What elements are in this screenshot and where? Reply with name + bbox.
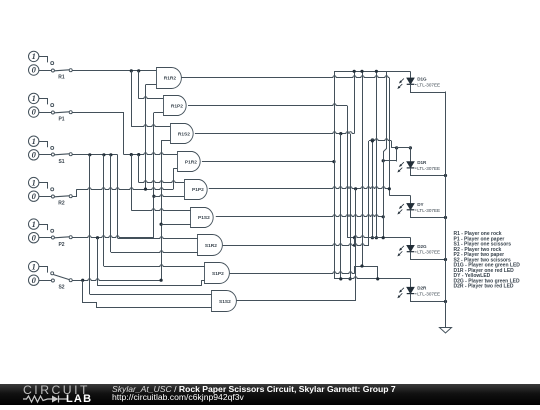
AND gate S1R2 (198, 235, 223, 256)
LED D2G LTL-307EE (396, 238, 445, 260)
junction P1R2 at long riser (332, 160, 335, 163)
svg-text:0: 0 (32, 107, 37, 117)
wire S1S2 riser to DY route (355, 189, 357, 301)
svg-text:1: 1 (32, 219, 36, 229)
junction P1S2 at D2G drop (382, 215, 385, 218)
wire S1 drop to S1R2 input A (117, 155, 119, 239)
svg-text:R1S2: R1S2 (178, 131, 190, 137)
svg-text:R1P2: R1P2 (171, 104, 183, 110)
junction D2R bus at S1P2 drop (376, 277, 379, 280)
AND gate P1S2 (191, 208, 214, 228)
wire riser 350 to D2R bus (350, 134, 352, 279)
wire D2R bus (334, 277, 411, 279)
wire D1R feed row (369, 139, 391, 141)
junction D2G bus at S1R2 stub (353, 236, 356, 239)
junction D1R bus top (395, 146, 398, 149)
junction on P1 row (P1P2 branch) (137, 153, 140, 156)
wire R1S2 drop to D2R bus (340, 134, 342, 279)
wire D1R feed upper row (391, 147, 410, 149)
wire S1 bus drop (S1R2 B side) (110, 155, 112, 252)
junction D2R bus at riser 350 (349, 277, 352, 280)
wire into S1P2 input A (104, 265, 205, 267)
svg-text:1: 1 (32, 51, 36, 61)
svg-text:1: 1 (32, 261, 36, 271)
svg-text:1: 1 (32, 93, 36, 103)
svg-text:LTL-307EE: LTL-307EE (417, 208, 440, 213)
AND gate R1R2 (157, 68, 182, 89)
junction DY route at R1R2 drop (388, 187, 391, 190)
junction S2 bus to P1S2 input B (160, 223, 163, 226)
junction riser 372.4 bottom (371, 236, 374, 239)
wire S1P2 drop to D2R bus (377, 266, 379, 279)
AND gate S1P2 (205, 263, 230, 284)
svg-text:S1: S1 (58, 159, 64, 165)
wire S1P2 jog row (355, 266, 378, 268)
junction on R1 row (R1S2 branch) (130, 69, 133, 72)
svg-text:0: 0 (32, 65, 37, 75)
wire P2 jog row to S1P2 (98, 285, 202, 287)
svg-text:LTL-307EE: LTL-307EE (417, 292, 440, 297)
svg-text:LTL-307EE: LTL-307EE (417, 250, 440, 255)
wire into S1P2 input B (201, 280, 205, 282)
wire riser 376.4 long (376, 71, 378, 237)
svg-text:S2: S2 (58, 285, 64, 291)
wire D1R feed step (391, 141, 393, 148)
junction S2 row (S2 bus takeoff) (160, 279, 163, 282)
AND gate P1R2 (178, 152, 201, 172)
junction S1P2 jog at long riser (360, 264, 363, 267)
switch S1 (29, 136, 73, 165)
wire R1R2 drop to DY bus (389, 78, 391, 196)
junction D1G bus at riser 362 (360, 70, 363, 73)
ground (440, 328, 452, 334)
junction R2 row to R2 bus (144, 188, 147, 191)
wire R2 stub to R1R2 input B (146, 84, 157, 86)
wire P1S2 output (216, 215, 383, 217)
wire S1 bus drop to S1S2 (89, 155, 91, 294)
switch R1 (29, 51, 73, 80)
svg-text:R1R2: R1R2 (164, 76, 177, 82)
junction D2G bus at lane line (382, 236, 385, 239)
junction DY route at S1S2 riser (354, 187, 357, 190)
LED D2R LTL-307EE (396, 279, 445, 302)
junction D1R bus at lane line (382, 159, 385, 162)
wire cathode return to ground (445, 92, 447, 328)
switch R2 (29, 177, 73, 206)
wire P2 drop past S2 row (97, 238, 99, 286)
wire S1S2 output (237, 300, 356, 302)
wire S1 row (72, 154, 118, 156)
wire S1 bus drop to S1P2 (103, 155, 105, 266)
wire R1 row to R1R2 input A (72, 70, 156, 72)
wire lane-jog line (384, 71, 387, 237)
junction P2 bus to P1P2 input B (152, 195, 155, 198)
svg-text:P1R2: P1R2 (185, 159, 197, 165)
switch P2 (29, 219, 73, 248)
junction S2 row (S1S2 branch) (81, 279, 84, 282)
wire R2 vertical bus (145, 85, 147, 189)
AND gate S1S2 (212, 291, 237, 312)
junction on S1 row (S1P2 branch) (102, 153, 105, 156)
wire into P1P2 input A (139, 181, 184, 183)
svg-text:1: 1 (32, 136, 36, 146)
wire into S1R2 input B (111, 251, 198, 253)
wire D2G bus (347, 236, 410, 238)
wire into P1S2 input B (161, 224, 191, 226)
wire S2 vertical bus (161, 141, 163, 281)
wire S1P2 output (230, 272, 355, 274)
svg-text:LTL-307EE: LTL-307EE (417, 166, 440, 171)
switch S2 (29, 261, 73, 290)
LED D1R LTL-307EE (396, 148, 445, 176)
wire into R1P2 input A (139, 97, 164, 99)
wire into P1S2 input A (131, 209, 191, 211)
svg-text:S1S2: S1S2 (219, 299, 231, 305)
wire DY bus (389, 195, 410, 197)
junction D1G bus at riser 354 (353, 70, 356, 73)
wire P1 to P1R2 input A (124, 153, 177, 155)
wire into S1S2 input A (90, 294, 212, 296)
wire R2 riser to P1R2 input B (173, 168, 175, 189)
svg-text:LTL-307EE: LTL-307EE (417, 82, 440, 87)
wire P2 vertical bus (153, 113, 155, 238)
wire P2 stub to R1P2 input B (154, 112, 163, 114)
svg-text:1: 1 (32, 177, 36, 187)
junction on S1 row (S1S2 branch) (88, 153, 91, 156)
junction riser 376.4 bottom (375, 236, 378, 239)
svg-text:D2R - Player two red LED: D2R - Player two red LED (454, 284, 514, 290)
junction on R1 row (R1P2 branch) (137, 69, 140, 72)
svg-text:DY: DY (417, 202, 423, 207)
wire P1P2 output / DY route (209, 187, 389, 189)
wire S1P2 jog up (354, 266, 356, 273)
svg-text:D1R: D1R (417, 160, 427, 165)
wire P2 row (72, 236, 154, 238)
wire into P1P2 input B (154, 195, 184, 197)
AND gate R1P2 (164, 96, 187, 116)
wire into R1S2 input A (131, 125, 170, 127)
junction R1S2 to D2R branch (339, 132, 342, 135)
wire into S1S2 input B (96, 307, 212, 309)
wire S1R2/D1R long riser (368, 141, 370, 245)
wire D1G bus (334, 71, 411, 73)
wire S2 row to S2 bus riser (72, 279, 161, 281)
wire P2 jog up (201, 280, 203, 286)
wire D1R bus short row (383, 160, 396, 162)
wire S2 stub to R1S2 input B (161, 140, 170, 142)
junction DY cathode to return (444, 216, 447, 219)
wire R1S2 riser to D1G bus (354, 71, 356, 133)
wire D1R bus riser (396, 148, 398, 161)
junction D1R feed (409, 146, 412, 149)
junction D2R bus at R1S2 drop (339, 277, 342, 280)
junction D1G bus at riser 376.4 (375, 70, 378, 73)
svg-text:0: 0 (32, 150, 37, 160)
switch P1 (29, 93, 73, 122)
AND gate P1P2 (185, 180, 208, 200)
wire S1R2 stub to D2G bus (354, 238, 356, 246)
svg-text:0: 0 (32, 232, 37, 242)
wire P1 row (72, 112, 124, 114)
wire P1R2 output (202, 161, 334, 163)
CircuitLab logo (23, 385, 93, 404)
junction riser 372.4 top (371, 139, 374, 142)
svg-text:S1P2: S1P2 (212, 271, 224, 277)
wire P1 drop (123, 112, 125, 155)
junction on P1 row (P1S2 branch) (130, 153, 133, 156)
svg-text:P2: P2 (58, 242, 64, 248)
svg-text:0: 0 (32, 191, 37, 201)
wire riser 372.4 (372, 141, 374, 238)
LED DY LTL-307EE (396, 196, 445, 218)
svg-text:D2R: D2R (417, 286, 427, 291)
wire R1R2 output to DY route (181, 76, 389, 78)
wire P1R2 riser/drop (334, 71, 336, 279)
junction on S1 row (S1R2 branch) (109, 153, 112, 156)
wire R2 step-up (72, 190, 76, 197)
junction S1R2 to D2G stub (353, 244, 356, 247)
svg-text:S1R2: S1R2 (205, 243, 217, 249)
svg-text:P1S2: P1S2 (198, 215, 210, 221)
wire R1 bus drop to R1S2 (131, 71, 133, 127)
junction D1R cathode to return (444, 174, 447, 177)
svg-text:P1P2: P1P2 (192, 187, 204, 193)
wire S2 long riser (362, 71, 364, 266)
wire R1 bus drop to R1P2 (138, 71, 140, 99)
wire R1P2 output (188, 104, 347, 106)
svg-text:D1G: D1G (417, 76, 427, 81)
wire P1 bus drop to P1S2 (131, 155, 133, 211)
wire R2 row (76, 188, 173, 190)
footer title text (112, 386, 396, 402)
svg-text:R1: R1 (58, 74, 65, 80)
wire P1 bus drop to P1P2 (138, 155, 140, 183)
wire R1S2 output (195, 132, 354, 134)
LED D1G LTL-307EE (396, 72, 445, 93)
svg-text:P1: P1 (58, 116, 64, 122)
AND gate R1S2 (171, 124, 194, 144)
wire R1P2 drop to D2G bus (347, 106, 349, 238)
wire into S1R2 input A (118, 237, 198, 239)
junction P2 row (S1P2 branch) (96, 236, 99, 239)
logo resistor and diode symbol (23, 394, 67, 404)
wire S2 drop to S1S2 input B (83, 281, 97, 308)
legend text (454, 231, 521, 290)
junction D2G cathode to return (444, 258, 447, 261)
wire S1R2 output (223, 244, 369, 246)
wire into P1R2 input B (173, 168, 177, 170)
footer bar (0, 384, 540, 405)
svg-text:D2G: D2G (417, 244, 427, 249)
svg-text:0: 0 (32, 275, 37, 285)
junction D2R cathode to return (444, 300, 447, 303)
svg-text:R2: R2 (58, 201, 65, 207)
